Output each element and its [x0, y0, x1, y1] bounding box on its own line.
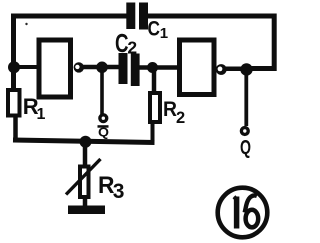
svg-text:1: 1	[160, 25, 168, 42]
svg-text:2: 2	[127, 38, 137, 58]
svg-text:Q: Q	[240, 137, 251, 159]
svg-text:2: 2	[176, 109, 185, 127]
svg-text:C: C	[148, 17, 161, 41]
svg-text:Q: Q	[98, 125, 109, 140]
svg-text:1: 1	[37, 106, 46, 123]
svg-text:R: R	[163, 98, 177, 121]
svg-text:3: 3	[113, 180, 125, 203]
